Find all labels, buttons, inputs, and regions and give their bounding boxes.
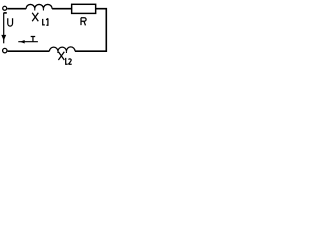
wire R to corner, right rail, bottom wire right: [75, 9, 106, 52]
label X_L2: [58, 52, 71, 65]
label I: [31, 37, 36, 42]
bottom wire left: [8, 50, 50, 52]
XL2 cusp ticks: [58, 51, 67, 53]
label U: [8, 18, 13, 26]
voltage arrow U shaft: [3, 13, 5, 43]
current arrow I head: [20, 40, 25, 44]
resistor R: [72, 4, 96, 13]
inductor XL1: [26, 4, 52, 8]
wire L1 to R: [52, 8, 71, 10]
voltage arrow U tail tick: [4, 12, 7, 14]
inductor XL2: [49, 47, 75, 51]
voltage arrow U head: [1, 35, 6, 41]
terminal bottom-left: [3, 48, 7, 52]
XL1 cusp ticks: [35, 9, 44, 11]
current arrow I shaft: [18, 41, 38, 43]
label X_L1: [32, 13, 48, 25]
label R: [81, 18, 86, 26]
terminal top-left: [3, 6, 7, 10]
wire top-left: [7, 8, 26, 10]
